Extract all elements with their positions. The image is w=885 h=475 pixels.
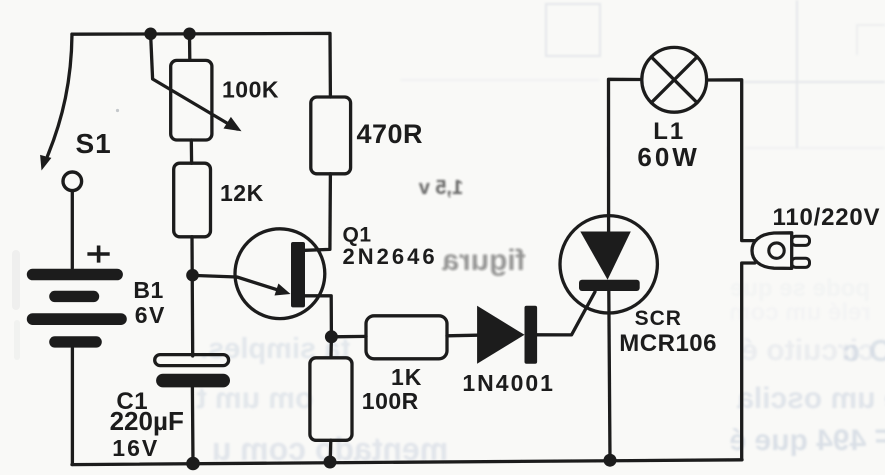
- svg-text:Q1: Q1: [343, 223, 372, 246]
- svg-text:110/220V: 110/220V: [773, 204, 881, 231]
- svg-text:O c: O c: [843, 333, 885, 368]
- svg-text:BF 494 que é: BF 494 que é: [729, 424, 885, 457]
- svg-text:MCR106: MCR106: [619, 330, 717, 357]
- svg-text:SCR: SCR: [635, 307, 682, 330]
- svg-text:relé um com: relé um com: [729, 299, 870, 326]
- svg-text:2N2646: 2N2646: [343, 244, 438, 269]
- svg-text:1K: 1K: [391, 364, 422, 390]
- svg-text:L1: L1: [653, 118, 685, 145]
- svg-text:100K: 100K: [222, 77, 279, 103]
- svg-text:1,5 v: 1,5 v: [418, 177, 463, 199]
- svg-text:470R: 470R: [357, 119, 424, 149]
- svg-text:S1: S1: [76, 128, 112, 159]
- svg-text:de um oscila: de um oscila: [737, 382, 885, 415]
- svg-text:60W: 60W: [637, 142, 699, 172]
- svg-text:figura: figura: [442, 244, 526, 277]
- svg-text:16V: 16V: [112, 435, 159, 461]
- svg-text:1N4001: 1N4001: [462, 370, 555, 396]
- svg-text:100R: 100R: [362, 388, 419, 414]
- svg-text:6V: 6V: [135, 302, 166, 328]
- svg-text:pode se que: pode se que: [730, 275, 870, 302]
- svg-text:220µF: 220µF: [110, 406, 184, 436]
- svg-text:B1: B1: [133, 277, 163, 303]
- svg-text:12K: 12K: [220, 180, 264, 206]
